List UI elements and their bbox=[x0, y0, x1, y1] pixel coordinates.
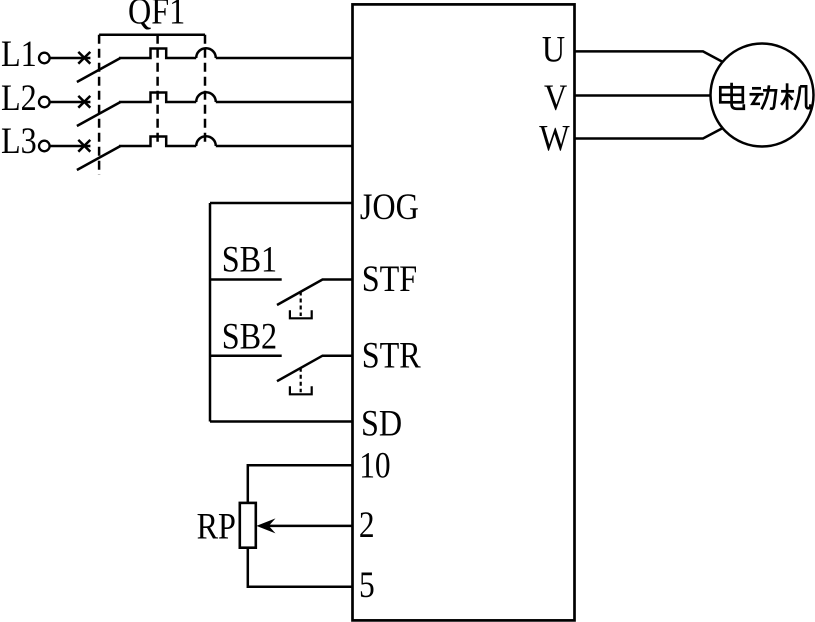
svg-text:SB1: SB1 bbox=[222, 240, 277, 281]
svg-text:QF1: QF1 bbox=[128, 0, 185, 32]
svg-text:W: W bbox=[539, 118, 570, 159]
svg-text:SB2: SB2 bbox=[222, 316, 277, 357]
svg-text:STR: STR bbox=[362, 335, 422, 376]
svg-text:SD: SD bbox=[361, 403, 402, 444]
svg-text:JOG: JOG bbox=[360, 187, 419, 228]
svg-text:U: U bbox=[542, 29, 565, 70]
svg-text:L1: L1 bbox=[1, 34, 37, 75]
svg-text:STF: STF bbox=[362, 259, 417, 300]
svg-text:L2: L2 bbox=[1, 78, 37, 119]
svg-text:L3: L3 bbox=[1, 121, 37, 162]
svg-text:RP: RP bbox=[197, 506, 236, 547]
svg-text:5: 5 bbox=[359, 565, 375, 606]
svg-text:2: 2 bbox=[359, 505, 375, 546]
svg-text:10: 10 bbox=[359, 445, 390, 486]
svg-text:V: V bbox=[544, 78, 567, 119]
